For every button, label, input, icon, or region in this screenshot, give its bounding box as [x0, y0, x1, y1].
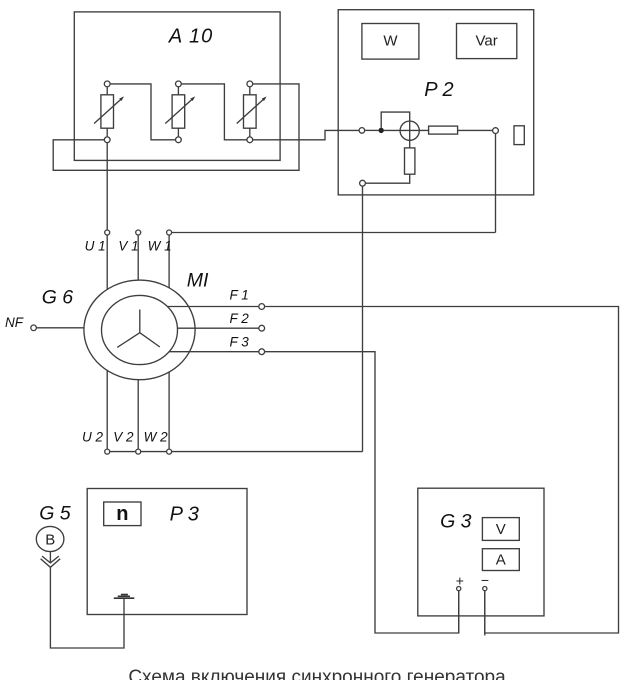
svg-text:P 2: P 2 [424, 79, 453, 101]
svg-text:+: + [456, 573, 464, 589]
svg-text:V: V [496, 521, 506, 538]
svg-text:W 2: W 2 [144, 430, 168, 445]
svg-text:F 2: F 2 [230, 311, 250, 326]
svg-text:MI: MI [187, 270, 209, 292]
svg-text:F 1: F 1 [230, 288, 249, 303]
svg-text:V 1: V 1 [118, 239, 138, 254]
svg-text:P 3: P 3 [170, 504, 199, 526]
svg-text:U 1: U 1 [85, 239, 106, 254]
svg-text:G 3: G 3 [440, 510, 472, 532]
svg-text:Var: Var [475, 33, 497, 50]
svg-text:U 2: U 2 [82, 430, 104, 445]
svg-text:−: − [481, 572, 489, 588]
svg-text:A 10: A 10 [168, 25, 213, 47]
svg-text:NF: NF [5, 315, 24, 330]
svg-text:B: B [45, 531, 55, 548]
svg-text:F 3: F 3 [230, 335, 250, 350]
svg-text:V 2: V 2 [113, 430, 134, 445]
svg-text:G 5: G 5 [39, 502, 71, 524]
svg-text:A: A [496, 551, 506, 568]
svg-text:n: n [116, 503, 128, 525]
svg-text:W: W [383, 33, 398, 50]
svg-text:W 1: W 1 [148, 239, 172, 254]
svg-text:Схема включения синхронного ге: Схема включения синхронного генератора [128, 667, 506, 680]
svg-text:G 6: G 6 [42, 286, 74, 308]
